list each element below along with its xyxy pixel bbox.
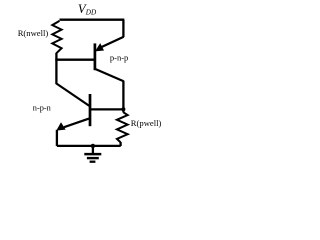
wire n-p-n base line [90, 108, 123, 110]
wire p-n-p emitter diagonal [101, 37, 124, 48]
resistor R(nwell) [52, 21, 61, 53]
wire VDD right drop to p-n-p emitter [122, 20, 124, 37]
ground bar 2 [87, 157, 99, 159]
svg-text:p-n-p: p-n-p [110, 52, 128, 62]
wire node A down [55, 60, 57, 84]
svg-text:n-p-n: n-p-n [33, 103, 52, 112]
transistor Q1 p-n-p base bar [94, 43, 97, 70]
wire p-n-p collector down to node B [122, 81, 124, 113]
svg-text:DD: DD [85, 9, 97, 17]
node A wire to p-n-p base [55, 59, 95, 61]
wire emitter down to ground rail [56, 130, 58, 146]
wire n-p-n collector diagonal [56, 84, 89, 106]
svg-text:R(pwell): R(pwell) [131, 118, 162, 128]
junction node B dot [121, 107, 125, 111]
wire p-n-p collector diagonal [95, 69, 124, 81]
svg-text:R(nwell): R(nwell) [18, 28, 49, 38]
transistor Q2 n-p-n base bar [89, 94, 92, 126]
ground bar 1 [84, 153, 101, 156]
wire ground rail bottom [57, 145, 121, 147]
arrowhead p-n-p emitter [95, 43, 104, 51]
resistor R(pwell) [117, 112, 128, 142]
ground bar 3 [90, 161, 96, 163]
ground stem [92, 146, 94, 153]
wire R(pwell) bottom lead [119, 142, 121, 146]
wire VDD top rail [60, 19, 125, 21]
arrowhead n-p-n emitter [56, 122, 65, 130]
wire n-p-n emitter diagonal [64, 119, 89, 128]
wire R(nwell) bottom lead [55, 53, 57, 60]
junction ground dot [91, 144, 95, 148]
